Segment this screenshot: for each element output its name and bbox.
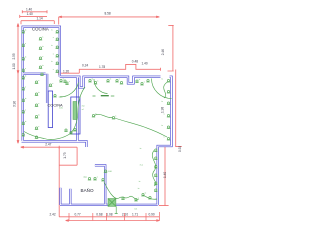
svg-text:tc.: tc. bbox=[139, 180, 142, 183]
svg-text:s: s bbox=[97, 177, 98, 179]
svg-text:tc: tc bbox=[162, 124, 164, 127]
svg-text:tc: tc bbox=[162, 78, 164, 81]
svg-text:s: s bbox=[115, 116, 116, 118]
svg-text:0.24: 0.24 bbox=[82, 64, 88, 68]
svg-text:s: s bbox=[164, 114, 165, 116]
svg-text:s: s bbox=[53, 54, 54, 56]
svg-text:s: s bbox=[42, 56, 43, 58]
svg-text:0.48: 0.48 bbox=[132, 60, 138, 64]
svg-text:tc: tc bbox=[92, 78, 94, 81]
svg-text:2.46: 2.46 bbox=[161, 49, 165, 55]
svg-text:0.60: 0.60 bbox=[108, 171, 113, 173]
svg-text:1.78: 1.78 bbox=[99, 65, 105, 69]
svg-text:0.90: 0.90 bbox=[149, 212, 155, 216]
svg-text:s: s bbox=[25, 43, 26, 45]
svg-text:s: s bbox=[69, 81, 70, 83]
svg-text:tc: tc bbox=[42, 45, 44, 48]
svg-text:3.90: 3.90 bbox=[12, 101, 16, 107]
svg-text:s: s bbox=[164, 137, 165, 139]
svg-text:tc: tc bbox=[25, 29, 27, 32]
svg-text:1.40: 1.40 bbox=[142, 61, 148, 65]
svg-text:tc: tc bbox=[162, 100, 164, 103]
svg-text:tc: tc bbox=[51, 60, 53, 63]
svg-text:tc: tc bbox=[25, 120, 27, 123]
svg-text:tc: tc bbox=[51, 44, 53, 47]
svg-text:1.73: 1.73 bbox=[63, 152, 67, 158]
svg-text:s: s bbox=[52, 83, 53, 85]
svg-text:tc: tc bbox=[139, 78, 141, 81]
svg-text:1.14: 1.14 bbox=[37, 17, 43, 21]
svg-text:tc: tc bbox=[38, 114, 40, 117]
svg-text:tc: tc bbox=[25, 56, 27, 59]
svg-text:s: s bbox=[42, 37, 43, 39]
svg-text:COCINA: COCINA bbox=[32, 27, 49, 32]
svg-text:alac: alac bbox=[83, 177, 87, 179]
svg-text:1.20: 1.20 bbox=[63, 70, 69, 74]
svg-text:ts: ts bbox=[138, 187, 140, 190]
svg-text:2.55: 2.55 bbox=[12, 53, 16, 59]
svg-text:COCINA: COCINA bbox=[48, 103, 64, 108]
svg-text:s: s bbox=[164, 90, 165, 92]
svg-text:m.s: m.s bbox=[140, 165, 143, 167]
svg-text:s: s bbox=[38, 126, 39, 128]
svg-text:0.68: 0.68 bbox=[96, 212, 102, 216]
svg-text:s: s bbox=[25, 110, 26, 112]
svg-text:s: s bbox=[144, 82, 145, 84]
svg-text:1.98: 1.98 bbox=[160, 107, 164, 113]
svg-text:s: s bbox=[53, 69, 54, 71]
svg-text:1.40: 1.40 bbox=[26, 7, 32, 11]
svg-text:2.47: 2.47 bbox=[45, 142, 51, 146]
svg-text:1.40: 1.40 bbox=[27, 12, 33, 16]
svg-text:1.71: 1.71 bbox=[132, 212, 138, 216]
svg-text:s: s bbox=[38, 80, 39, 82]
svg-text:1.00: 1.00 bbox=[12, 63, 16, 69]
svg-text:0.1: 0.1 bbox=[135, 209, 139, 211]
svg-text:tc: tc bbox=[38, 91, 40, 94]
svg-text:s: s bbox=[138, 198, 139, 200]
svg-text:1.05: 1.05 bbox=[59, 108, 64, 110]
svg-text:1.40: 1.40 bbox=[163, 172, 167, 178]
svg-text:tc: tc bbox=[25, 97, 27, 100]
svg-text:tc: tc bbox=[95, 113, 97, 116]
svg-text:0.77: 0.77 bbox=[75, 212, 81, 216]
svg-text:tc: tc bbox=[145, 192, 147, 195]
svg-text:2.42: 2.42 bbox=[50, 212, 56, 216]
svg-text:BAÑO: BAÑO bbox=[81, 187, 94, 193]
svg-text:1.08: 1.08 bbox=[106, 212, 112, 216]
svg-text:s: s bbox=[119, 79, 120, 81]
svg-text:tc: tc bbox=[42, 64, 44, 67]
svg-text:me: me bbox=[82, 106, 86, 108]
svg-text:al: al bbox=[82, 109, 84, 111]
svg-text:0.92: 0.92 bbox=[178, 146, 182, 152]
svg-text:2.10: 2.10 bbox=[122, 212, 128, 216]
svg-text:s: s bbox=[97, 81, 98, 83]
svg-text:s: s bbox=[25, 68, 26, 70]
svg-text:tc: tc bbox=[110, 78, 112, 81]
svg-text:s: s bbox=[25, 87, 26, 89]
svg-text:s: s bbox=[53, 37, 54, 39]
svg-text:tc.: tc. bbox=[140, 147, 143, 150]
svg-text:tc: tc bbox=[51, 29, 53, 32]
svg-text:8.58: 8.58 bbox=[105, 12, 111, 16]
svg-text:tc: tc bbox=[25, 75, 27, 78]
svg-text:s: s bbox=[38, 103, 39, 105]
